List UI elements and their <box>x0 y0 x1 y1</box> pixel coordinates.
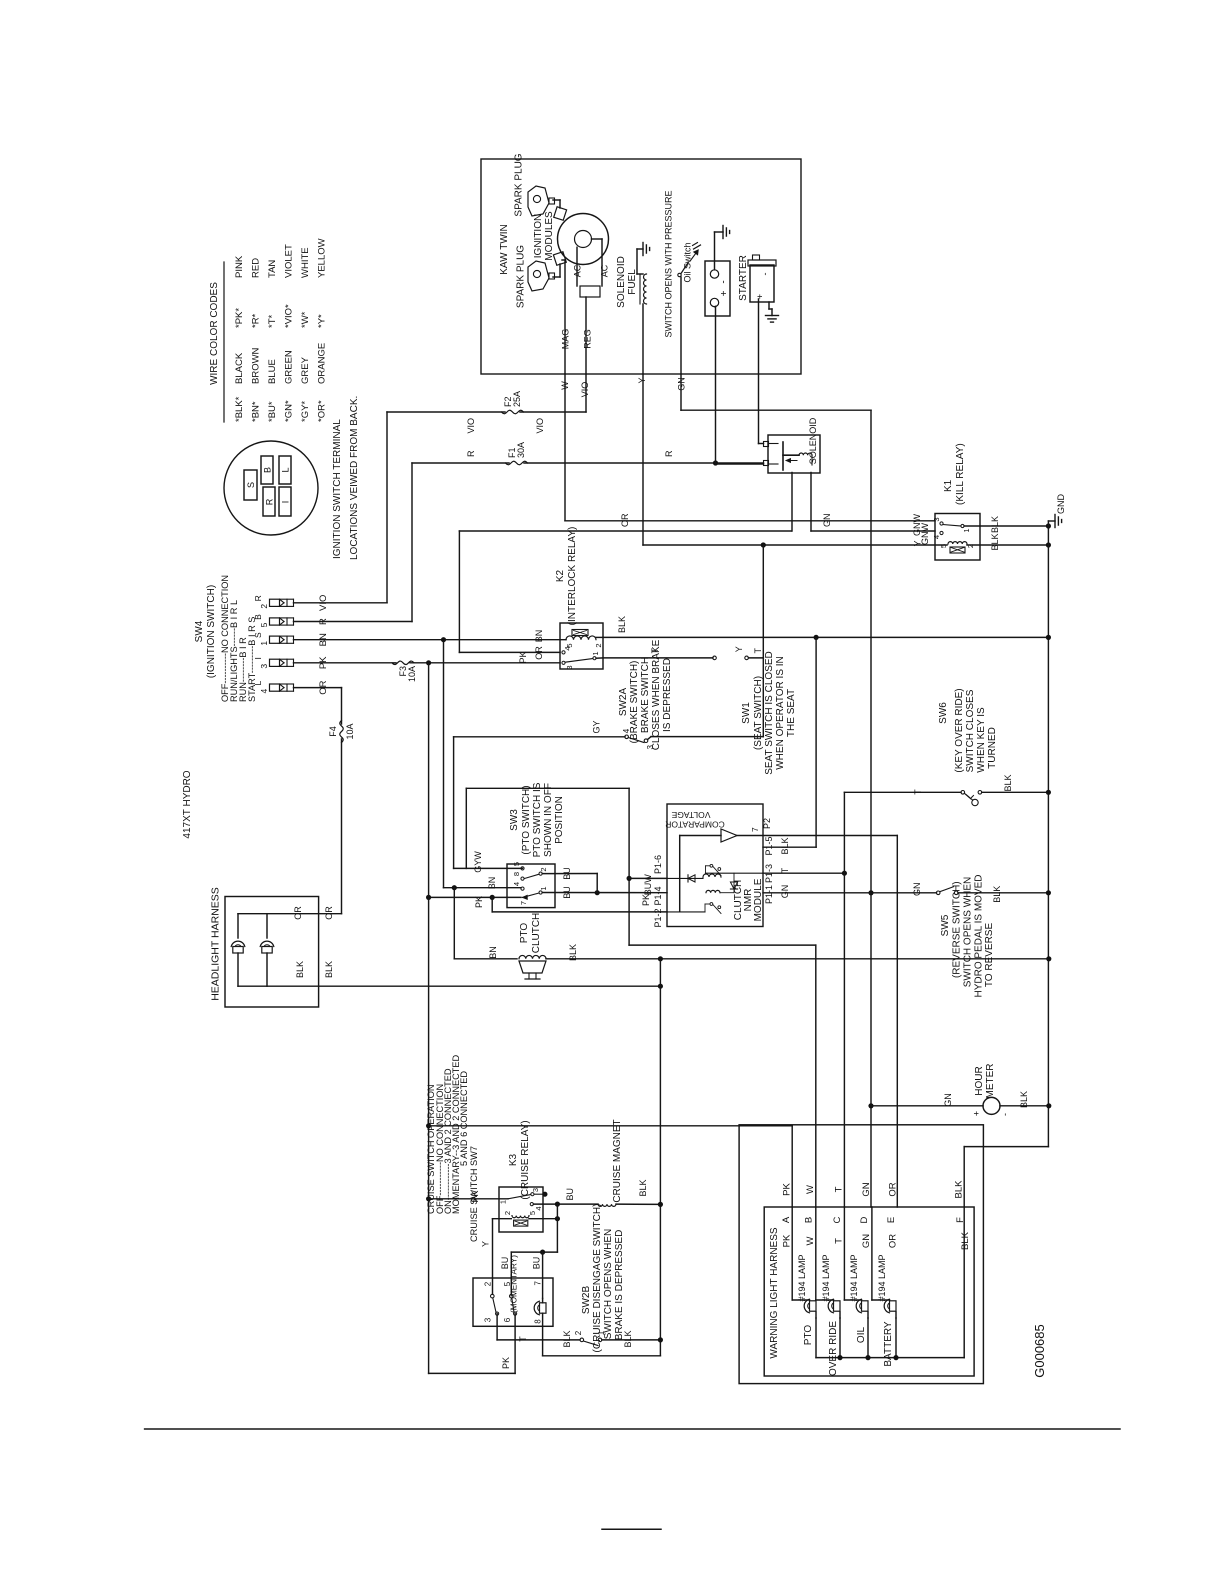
headlight bulb 2 <box>266 953 268 986</box>
wire GYW loop from SW3 5 <box>454 867 523 869</box>
footer tick line <box>602 1528 661 1530</box>
wire PTO clutch BLK <box>546 958 1050 960</box>
svg-text:T: T <box>913 789 923 795</box>
svg-text:AC: AC <box>600 264 610 277</box>
regulator rectifier <box>580 286 600 297</box>
svg-text:P1-2: P1-2 <box>653 908 663 927</box>
svg-text:SWITCH OPENS WHEN: SWITCH OPENS WHEN <box>603 1229 614 1340</box>
svg-text:BROWN: BROWN <box>251 347 262 384</box>
SW7 lamp 7-8 <box>540 1303 547 1313</box>
svg-text:OIL: OIL <box>856 1327 867 1344</box>
svg-text:3: 3 <box>531 1188 540 1192</box>
headlight harness box <box>225 897 319 1008</box>
svg-text:OR: OR <box>620 513 630 527</box>
svg-text:(KEY OVER RIDE): (KEY OVER RIDE) <box>954 688 965 772</box>
wire solenoid coil to K1 GNW <box>810 473 812 532</box>
svg-text:SOLENOID: SOLENOID <box>808 417 818 464</box>
svg-text:10A: 10A <box>407 666 417 682</box>
svg-text:2: 2 <box>503 1211 512 1215</box>
svg-text:D: D <box>859 1216 870 1223</box>
svg-text:OR: OR <box>324 906 334 920</box>
wire SW5 BLK <box>958 892 1048 894</box>
svg-text:OR: OR <box>888 1182 899 1196</box>
svg-text:B: B <box>263 467 273 473</box>
warning outer box <box>739 1125 983 1384</box>
svg-text:REG: REG <box>583 329 593 349</box>
wire BLK cross line <box>659 960 661 1356</box>
svg-text:CRUISE SWITCH SW7: CRUISE SWITCH SW7 <box>469 1146 479 1242</box>
svg-text:W: W <box>805 1236 816 1245</box>
svg-text:SHOWN IN OFF: SHOWN IN OFF <box>543 783 554 857</box>
SW3 blade 7-1 <box>523 893 540 897</box>
svg-text:TAN: TAN <box>267 260 278 278</box>
wire BU from K3 4 to cruise magnet <box>533 1203 598 1205</box>
warning lamp 4 #194 <box>871 1207 873 1300</box>
svg-text:-: - <box>1000 1113 1010 1116</box>
svg-text:LOCATIONS VEIWED FROM BACK.: LOCATIONS VEIWED FROM BACK. <box>349 396 360 560</box>
SW3 blade 8-2 <box>524 874 539 878</box>
svg-text:GN: GN <box>861 1182 872 1196</box>
svg-text:(REVERSE SWITCH): (REVERSE SWITCH) <box>952 881 963 978</box>
svg-text:BLK: BLK <box>623 1330 633 1347</box>
ground GND <box>1048 520 1055 522</box>
comparator output 7 <box>737 835 897 837</box>
svg-text:R: R <box>253 595 263 601</box>
svg-text:2: 2 <box>259 604 269 609</box>
svg-text:-: - <box>760 273 770 276</box>
svg-text:*T*: *T* <box>267 315 278 329</box>
svg-text:W: W <box>560 381 570 390</box>
svg-text:(INTERLOCK RELAY): (INTERLOCK RELAY) <box>567 527 578 626</box>
module internal relay 2 coil <box>706 890 720 892</box>
svg-text:P1-1: P1-1 <box>764 885 774 904</box>
svg-text:BU: BU <box>562 886 572 899</box>
svg-text:BLK: BLK <box>295 961 305 978</box>
wire SW7 3 T to SW2B <box>496 1314 498 1340</box>
svg-text:BN: BN <box>487 877 497 890</box>
svg-text:C: C <box>832 1216 843 1223</box>
relay K2 interlock relay box <box>560 623 603 669</box>
svg-text:BU: BU <box>500 1257 510 1270</box>
svg-text:P1-4: P1-4 <box>653 886 663 905</box>
svg-text:SPARK PLUG: SPARK PLUG <box>516 245 527 308</box>
svg-text:VIOLET: VIOLET <box>284 244 295 278</box>
svg-text:CRUISE MAGNET: CRUISE MAGNET <box>612 1119 623 1202</box>
svg-text:T: T <box>834 1238 845 1244</box>
svg-text:F4: F4 <box>328 726 338 737</box>
switch SW2B cruise disengage <box>580 1338 584 1342</box>
wire K2 output T to seat switch <box>596 657 603 659</box>
relay K1 kill relay box <box>935 514 980 561</box>
starter solenoid box <box>768 435 820 473</box>
wire K1 coil BLK <box>967 544 1048 546</box>
wire PK return to SW7 6 <box>429 1372 515 1374</box>
svg-text:K2: K2 <box>555 569 566 582</box>
wire battery positive to solenoid <box>716 463 764 465</box>
svg-text:BLUE: BLUE <box>267 359 278 384</box>
wire BN branch to PTO clutch <box>452 885 457 890</box>
svg-text:BLK: BLK <box>992 886 1002 903</box>
wire W to module P1-6 <box>629 877 667 879</box>
svg-text:K1: K1 <box>943 479 954 492</box>
wire W MAG to K1 GNW <box>564 374 566 521</box>
svg-text:BRAKE SWITCH: BRAKE SWITCH <box>640 657 651 733</box>
svg-text:(MOMENTARY): (MOMENTARY) <box>510 1255 519 1313</box>
switch SW2A brake switch <box>625 735 629 739</box>
svg-text:VOLTAGE: VOLTAGE <box>671 810 710 820</box>
wire fuel solenoid to ground <box>637 273 643 275</box>
svg-text:PTO SWITCH IS: PTO SWITCH IS <box>532 782 543 857</box>
svg-text:SW2B: SW2B <box>581 1286 592 1315</box>
wire solenoid coil to OR bus <box>791 473 793 532</box>
wire K3 coil Y to SW7 2 <box>493 1218 512 1220</box>
svg-text:GREY: GREY <box>300 356 311 384</box>
svg-text:417XT HYDRO: 417XT HYDRO <box>182 770 193 838</box>
svg-text:MODULES: MODULES <box>544 211 555 261</box>
svg-text:MODULE: MODULE <box>753 878 764 921</box>
wire battery positive feed <box>715 307 717 464</box>
svg-text:SW6: SW6 <box>938 702 949 724</box>
svg-text:COMPARATOR: COMPARATOR <box>665 820 725 830</box>
wire BN to SW3 4 <box>443 640 445 888</box>
module diode 2 <box>733 873 735 893</box>
svg-text:BLK: BLK <box>324 961 334 978</box>
fuse F3 10A <box>392 661 414 664</box>
svg-text:SW3: SW3 <box>509 809 520 831</box>
svg-text:2: 2 <box>594 643 603 647</box>
wire VIO to engine REG <box>585 374 587 412</box>
svg-text:VIO: VIO <box>466 418 476 434</box>
svg-text:T: T <box>518 1336 528 1342</box>
svg-text:W: W <box>805 1185 816 1194</box>
warning light harness box <box>764 1207 974 1376</box>
wire cruise magnet BLK <box>616 1203 660 1205</box>
svg-text:BLK: BLK <box>1019 1091 1029 1108</box>
svg-text:SOLENOID: SOLENOID <box>616 256 627 308</box>
svg-text:6: 6 <box>503 1317 512 1322</box>
svg-text:T: T <box>753 648 763 654</box>
wire SW7 8 BLK <box>542 1313 544 1356</box>
svg-text:BLK: BLK <box>960 1231 971 1250</box>
svg-text:-: - <box>719 280 730 283</box>
svg-text:WIRE COLOR CODES: WIRE COLOR CODES <box>209 282 220 385</box>
svg-text:BN: BN <box>488 946 498 959</box>
wire seat switch Y to Y bus <box>762 658 764 737</box>
svg-text:PK: PK <box>474 896 484 908</box>
svg-text:Y: Y <box>734 646 744 652</box>
svg-text:BLACK: BLACK <box>234 352 245 384</box>
svg-text:CLUTCH: CLUTCH <box>531 913 542 954</box>
wire W to warning lamp B <box>629 944 816 946</box>
K1 switch <box>940 522 943 525</box>
wire battery positive <box>715 306 716 308</box>
wire battery negative to ground <box>714 232 716 270</box>
svg-text:7: 7 <box>534 1281 543 1286</box>
svg-text:TURNED: TURNED <box>987 727 998 769</box>
wire REG VIO inside box <box>585 297 587 374</box>
svg-text:R: R <box>466 450 476 457</box>
svg-text:+: + <box>719 290 730 296</box>
svg-text:+: + <box>972 1111 982 1116</box>
svg-text:MAG: MAG <box>561 329 571 350</box>
wire K3 coil to BU <box>529 1218 557 1220</box>
svg-text:SWITCH CLOSES: SWITCH CLOSES <box>965 689 976 772</box>
svg-text:R: R <box>265 498 275 505</box>
svg-text:BLK: BLK <box>562 1330 572 1347</box>
svg-text:*PK*: *PK* <box>234 308 245 328</box>
SW3 contacts <box>521 867 524 870</box>
svg-text:3: 3 <box>259 664 269 669</box>
svg-text:#194 LAMP: #194 LAMP <box>877 1254 887 1301</box>
svg-text:S: S <box>246 482 256 488</box>
svg-text:GND: GND <box>1056 494 1066 515</box>
svg-text:8: 8 <box>534 1319 543 1324</box>
svg-text:I: I <box>253 657 263 659</box>
svg-text:SW1: SW1 <box>741 702 752 724</box>
svg-text:BLK: BLK <box>780 837 790 854</box>
wire GY to brake switch <box>454 736 625 738</box>
wire K2 coil out BLK <box>596 636 603 638</box>
svg-text:*Y*: *Y* <box>317 314 328 328</box>
svg-text:T: T <box>780 867 790 873</box>
svg-text:SW5: SW5 <box>940 914 951 936</box>
switch SW7 box <box>473 1278 553 1326</box>
svg-text:PK: PK <box>782 1234 793 1247</box>
svg-text:P2: P2 <box>762 818 772 829</box>
wire PK to warning lamp A <box>429 1125 793 1127</box>
svg-text:4: 4 <box>932 535 941 539</box>
svg-text:R: R <box>664 450 674 457</box>
wire PK bus drop <box>428 663 430 1374</box>
svg-text:PK: PK <box>641 894 651 906</box>
warning BLK rail <box>816 1357 964 1359</box>
svg-text:BU: BU <box>532 1257 542 1270</box>
module internal switch 2 <box>710 903 713 906</box>
switch SW3 PTO switch box <box>507 864 555 908</box>
wire PK branch to module P1-2 <box>491 897 493 912</box>
svg-text:BLK: BLK <box>954 1180 965 1199</box>
svg-text:8: 8 <box>512 872 521 876</box>
svg-text:A: A <box>781 1216 792 1223</box>
svg-text:BLK: BLK <box>990 533 1000 550</box>
svg-text:KAW TWIN: KAW TWIN <box>499 224 510 275</box>
svg-text:T: T <box>834 1186 845 1192</box>
wire P1-3 T <box>763 872 844 874</box>
svg-text:4: 4 <box>512 882 521 886</box>
wire OR bus <box>459 530 791 532</box>
svg-text:*BN*: *BN* <box>251 401 262 422</box>
module diode 1 <box>688 875 695 882</box>
wire SW4 R2 VIO to fuse F2 line <box>294 602 388 604</box>
svg-text:WHITE: WHITE <box>300 247 311 278</box>
svg-text:#194 LAMP: #194 LAMP <box>821 1254 831 1301</box>
svg-text:10A: 10A <box>345 723 355 739</box>
svg-text:METER: METER <box>985 1064 996 1099</box>
svg-text:OR: OR <box>293 906 303 920</box>
svg-text:(SEAT SWITCH): (SEAT SWITCH) <box>753 676 764 750</box>
fuse F4 10A <box>340 721 343 743</box>
warning lamp 3 #194 <box>843 1207 845 1300</box>
wire OR branch to K2 terminal 4 <box>458 531 460 652</box>
svg-text:ORANGE: ORANGE <box>317 343 328 384</box>
K3 coil <box>512 1216 529 1218</box>
headlight bulb 1 <box>237 953 239 986</box>
svg-text:*BLK*: *BLK* <box>234 396 245 422</box>
solenoid coil <box>799 453 812 455</box>
wire GY brake to GYW <box>453 737 455 869</box>
SW7 switch 6-5 <box>510 1294 514 1298</box>
svg-text:1: 1 <box>499 1200 508 1204</box>
svg-text:PINK: PINK <box>234 255 245 278</box>
wire MAG W inside box <box>564 260 566 374</box>
K1 coil <box>948 542 967 544</box>
svg-text:WARNING LIGHT HARNESS: WARNING LIGHT HARNESS <box>769 1227 780 1358</box>
svg-text:TO REVERSE: TO REVERSE <box>984 923 995 988</box>
svg-text:BU: BU <box>565 1188 575 1201</box>
wire SW6 BLK <box>982 791 1049 793</box>
K2 coil <box>566 636 596 640</box>
flywheel magneto <box>558 214 609 265</box>
svg-text:Y: Y <box>481 1241 491 1247</box>
svg-text:B: B <box>253 614 263 620</box>
module internal input line <box>680 835 721 837</box>
svg-text:5: 5 <box>528 1211 537 1215</box>
svg-text:SWITCH OPENS WITH PRESSURE: SWITCH OPENS WITH PRESSURE <box>664 190 674 337</box>
svg-text:P1-5: P1-5 <box>764 836 774 855</box>
svg-text:W: W <box>643 874 653 883</box>
svg-text:Y: Y <box>637 377 647 383</box>
svg-text:PTO: PTO <box>803 1325 814 1346</box>
svg-text:VIO: VIO <box>580 382 590 398</box>
warning lamp 2 #194 <box>815 1207 817 1300</box>
svg-text:K3: K3 <box>508 1153 519 1166</box>
wire starter positive feed <box>758 299 760 444</box>
svg-text:1: 1 <box>259 641 269 646</box>
wire PK to SW3 7 <box>429 896 521 898</box>
module internal relay 1 coil <box>667 877 703 879</box>
left margin rule <box>145 1428 1120 1430</box>
svg-text:5 AND 6 CONNECTED: 5 AND 6 CONNECTED <box>459 1071 469 1166</box>
svg-text:*OR*: *OR* <box>317 400 328 422</box>
oil switch arrow <box>691 253 697 261</box>
svg-text:SW4: SW4 <box>194 620 205 642</box>
svg-text:E: E <box>886 1217 897 1223</box>
svg-text:3: 3 <box>484 1317 493 1322</box>
svg-text:#194 LAMP: #194 LAMP <box>797 1254 807 1301</box>
svg-text:*BU*: *BU* <box>267 401 278 422</box>
wire spark plug 2 to module <box>553 276 560 278</box>
svg-text:OR: OR <box>534 646 544 660</box>
svg-text:S: S <box>253 632 263 638</box>
svg-text:OR: OR <box>888 1234 899 1248</box>
solenoid terminals <box>764 442 769 447</box>
svg-text:(KILL RELAY): (KILL RELAY) <box>955 443 966 505</box>
svg-text:3: 3 <box>565 665 574 669</box>
wire warning F BLK <box>963 1207 965 1358</box>
wire P1-1 GN <box>763 892 937 894</box>
wire BU from SW3 1 to module P1-4 <box>542 892 667 894</box>
wire GN oil switch bus <box>680 374 682 410</box>
svg-text:PK: PK <box>782 1183 793 1196</box>
svg-text:VIO: VIO <box>535 418 545 434</box>
svg-text:YELLOW: YELLOW <box>317 238 328 278</box>
svg-text:*GN*: *GN* <box>284 400 295 422</box>
svg-text:Y: Y <box>913 540 923 546</box>
svg-text:1: 1 <box>962 528 971 532</box>
K3 switch <box>508 1195 531 1199</box>
svg-text:BLK: BLK <box>1003 774 1013 791</box>
wire starter negative to ground <box>768 302 770 309</box>
svg-text:L: L <box>281 467 291 472</box>
svg-text:BLK: BLK <box>638 1179 648 1196</box>
svg-text:HEADLIGHT HARNESS: HEADLIGHT HARNESS <box>210 887 222 1001</box>
svg-text:GN: GN <box>861 1234 872 1248</box>
svg-text:BRAKE IS DEPRESSED: BRAKE IS DEPRESSED <box>614 1230 625 1341</box>
svg-text:(CRUISE DISENGAGE SWITCH): (CRUISE DISENGAGE SWITCH) <box>592 1204 603 1353</box>
relay K3 cruise relay box <box>499 1187 543 1232</box>
svg-text:L: L <box>253 680 263 685</box>
wire BU interconnect <box>556 1204 558 1252</box>
module clutch NMR box <box>667 804 763 927</box>
svg-text:IGNITION: IGNITION <box>533 214 544 258</box>
svg-text:GY: GY <box>592 720 602 733</box>
svg-text:(CRUISE RELAY): (CRUISE RELAY) <box>520 1120 531 1199</box>
svg-text:PTO: PTO <box>519 923 530 944</box>
wire SW4 L4 OR to fuse F4 <box>294 687 342 689</box>
svg-text:GYW: GYW <box>473 851 483 873</box>
wire SW4 I3 PK bus with fuse F3 <box>294 662 397 664</box>
svg-text:RED: RED <box>251 258 262 278</box>
svg-text:*W*: *W* <box>300 311 311 328</box>
svg-text:SPARK PLUG: SPARK PLUG <box>514 153 525 216</box>
key symbol <box>964 793 971 799</box>
svg-text:(IGNITION SWITCH): (IGNITION SWITCH) <box>206 585 217 678</box>
svg-text:PK: PK <box>518 651 528 663</box>
svg-text:4: 4 <box>259 688 269 693</box>
svg-text:SEAT SWITCH IS CLOSED: SEAT SWITCH IS CLOSED <box>764 651 775 775</box>
wire starter positive to solenoid <box>759 443 764 445</box>
svg-text:2: 2 <box>539 867 548 871</box>
wire SW4 S1 BN bus <box>294 639 567 641</box>
svg-text:1: 1 <box>591 651 600 655</box>
wire SW4 B5 R to fuse F1 line <box>294 621 413 623</box>
svg-text:*GY*: *GY* <box>300 401 311 422</box>
wire K1 output BLK to ground <box>980 525 1048 527</box>
SW7 switch 3-2 <box>491 1294 495 1298</box>
svg-text:(PTO SWITCH): (PTO SWITCH) <box>521 785 532 854</box>
svg-text:THE SEAT: THE SEAT <box>786 689 797 737</box>
wire headlight BLK rail <box>238 985 660 987</box>
svg-text:BN: BN <box>534 630 544 643</box>
svg-text:IGNITION SWITCH TERMINAL: IGNITION SWITCH TERMINAL <box>332 419 343 559</box>
engine box KAW TWIN <box>481 159 801 374</box>
svg-text:4: 4 <box>563 646 572 650</box>
wire BLK main bus <box>1047 526 1049 1147</box>
svg-text:CLOSES WHEN BRAKE: CLOSES WHEN BRAKE <box>651 639 662 750</box>
svg-text:SW2A: SW2A <box>618 688 629 717</box>
wire P1-5 BLK <box>763 846 816 848</box>
svg-text:2: 2 <box>484 1281 493 1286</box>
svg-text:WHEN KEY IS: WHEN KEY IS <box>976 707 987 773</box>
svg-text:5: 5 <box>512 862 521 866</box>
svg-text:P1-6: P1-6 <box>653 855 663 874</box>
svg-text:BLK: BLK <box>990 516 1000 533</box>
svg-text:GN: GN <box>943 1093 953 1107</box>
ground battery <box>722 226 724 239</box>
svg-text:5: 5 <box>259 622 269 627</box>
svg-text:STARTER: STARTER <box>738 255 749 301</box>
ground starter <box>766 315 779 317</box>
